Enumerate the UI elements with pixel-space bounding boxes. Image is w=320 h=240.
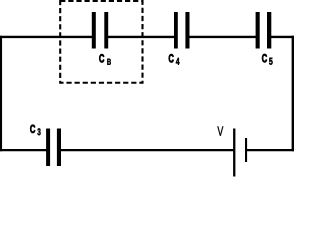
label C4 — [169, 54, 180, 64]
wire: C5 to top-right corner segment — [269, 36, 294, 38]
wire: C4 to C5 segment — [187, 36, 258, 38]
wire: CB to C4 segment — [106, 36, 176, 38]
label C5 — [262, 54, 273, 65]
label V — [217, 126, 223, 135]
wire: left vertical side — [0, 36, 2, 152]
wire: C3 to battery segment — [59, 149, 234, 151]
label CB — [99, 54, 111, 64]
capacitor C5 — [256, 12, 272, 49]
wire: right vertical side — [292, 36, 294, 152]
dashed box around CB — [60, 1, 142, 83]
battery V: short (negative) plate — [245, 138, 247, 162]
label C3 — [30, 125, 40, 135]
wire: battery to bottom-right corner segment — [246, 149, 294, 151]
capacitor C3 — [46, 129, 61, 167]
battery V: long (positive) plate — [233, 129, 235, 177]
wire: top-left segment (left corner to CB) — [0, 36, 94, 38]
capacitor C4 — [174, 12, 190, 49]
wire: bottom-left segment (corner to C3) — [0, 149, 48, 151]
capacitor CB — [92, 12, 108, 49]
